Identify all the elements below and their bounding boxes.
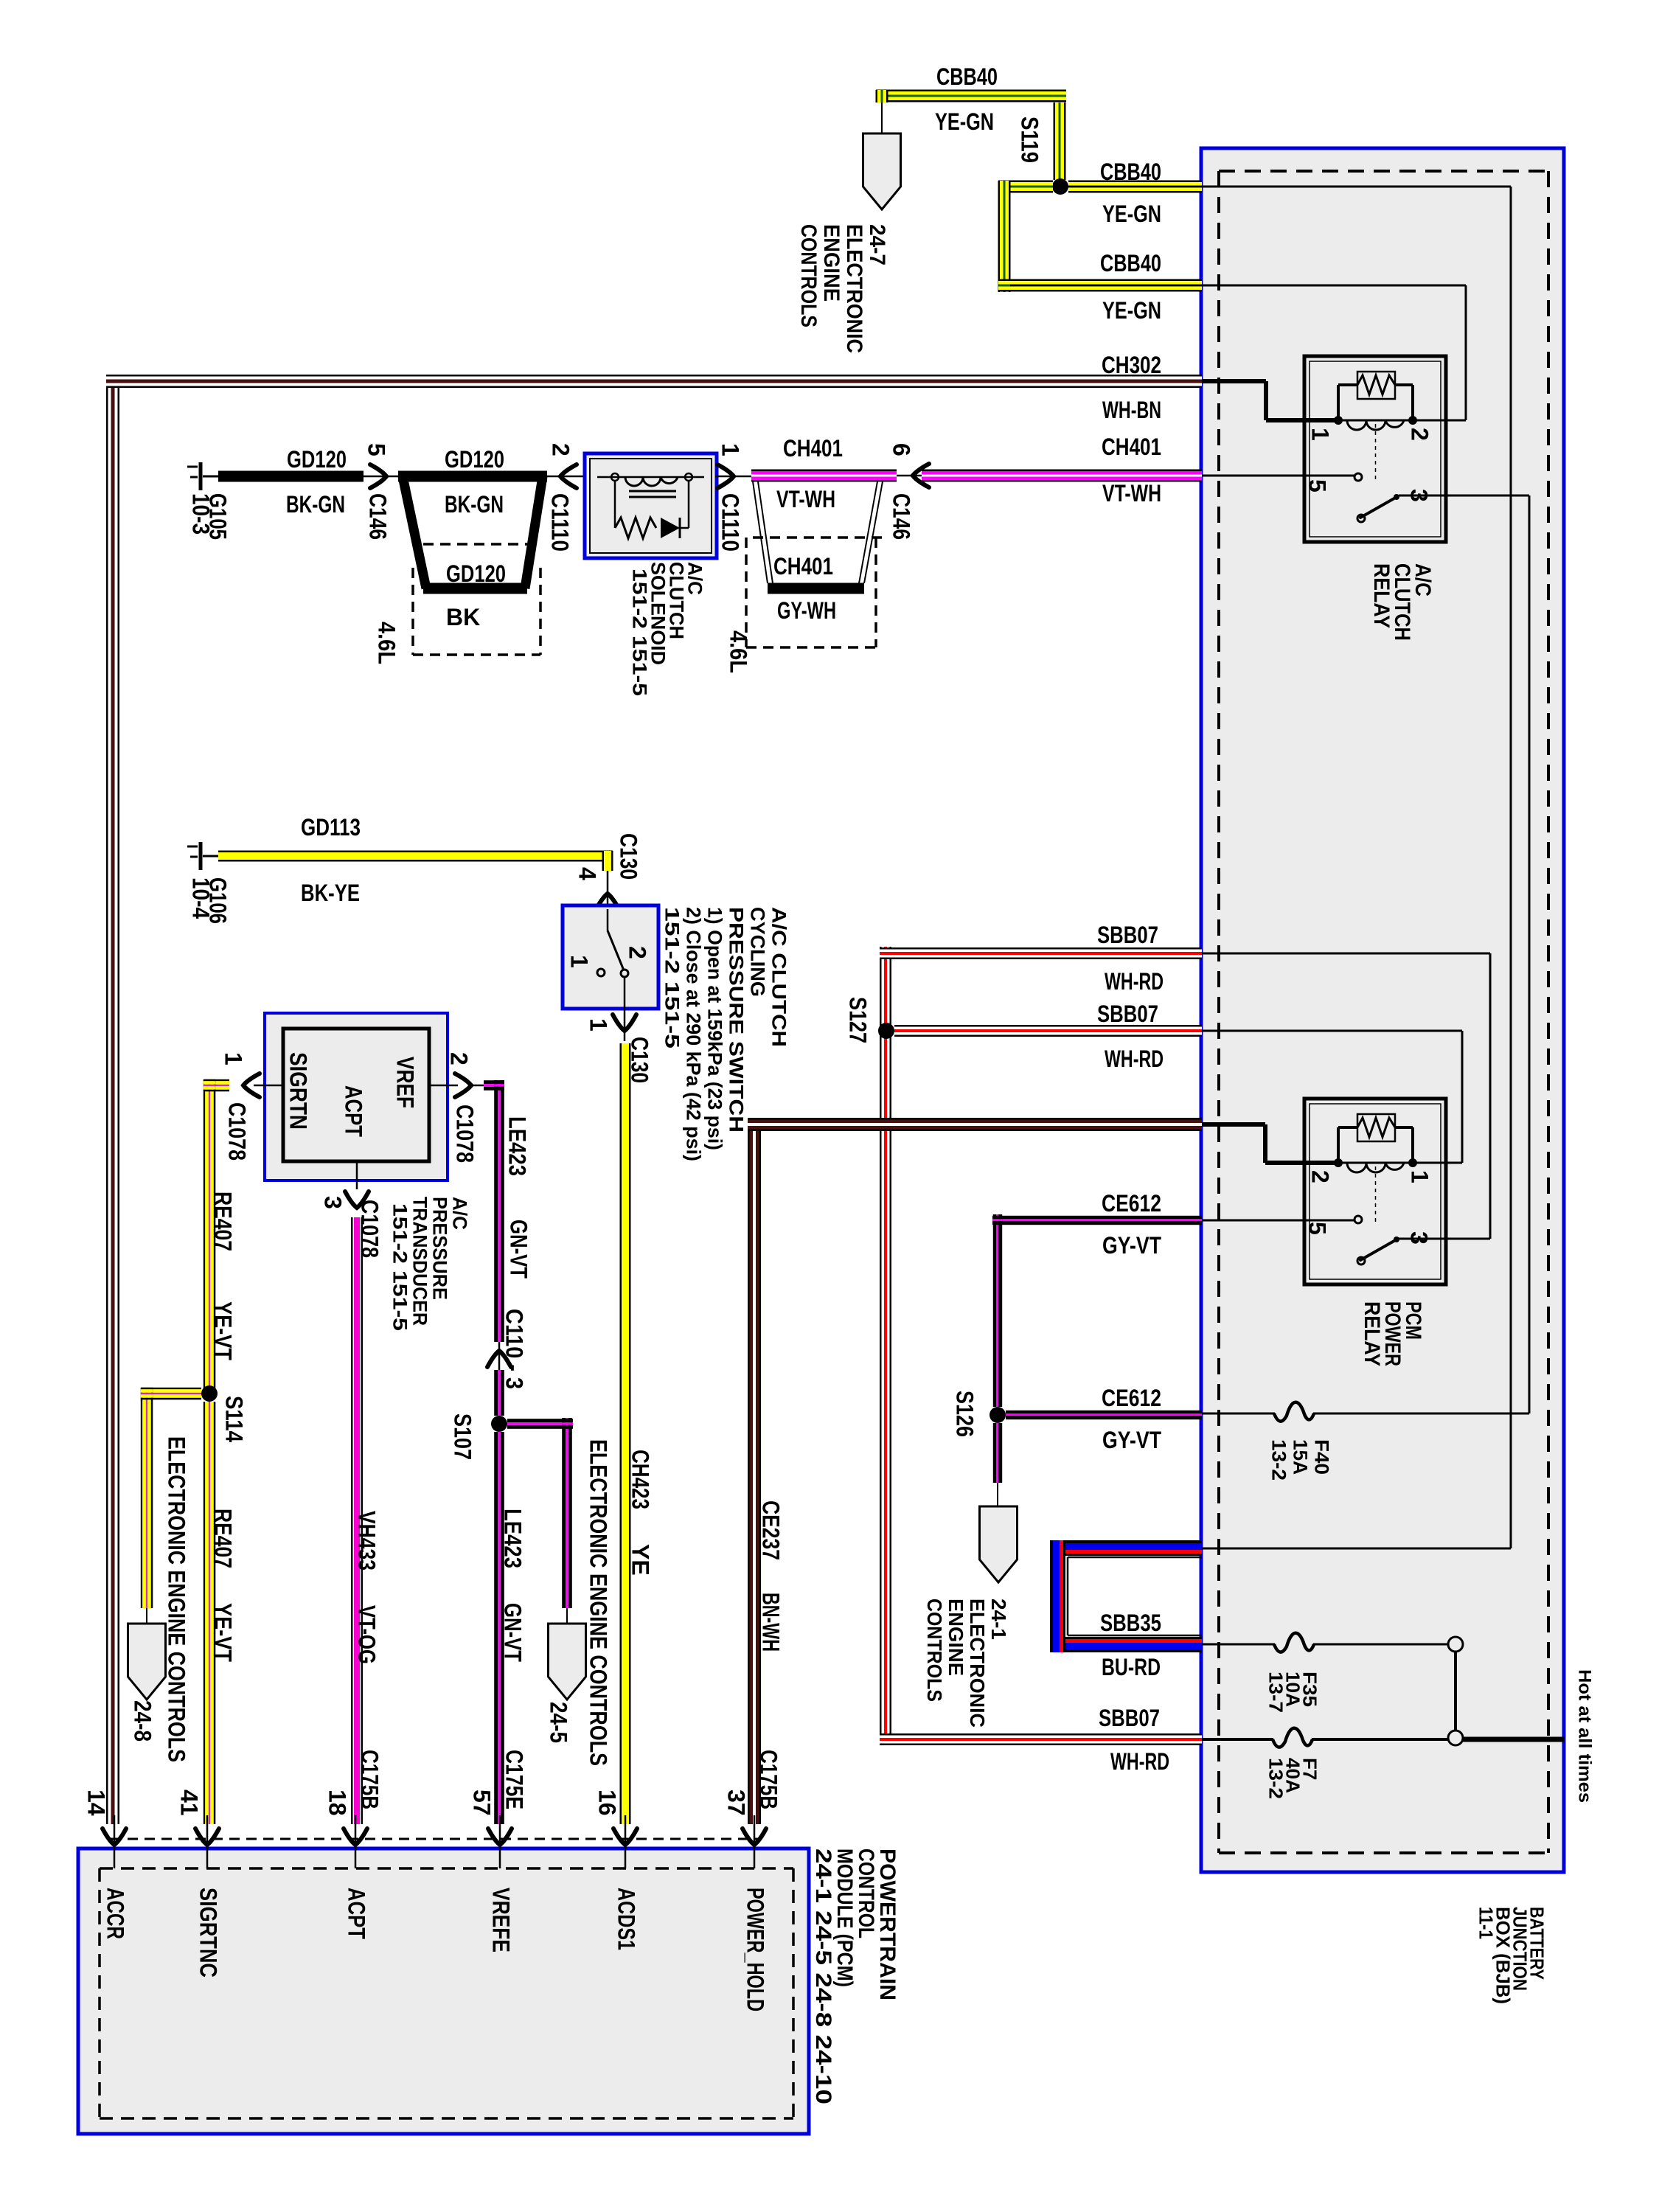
svg-text:1: 1 (220, 1052, 247, 1065)
svg-text:CH401: CH401 (783, 435, 843, 462)
svg-text:4.6L: 4.6L (726, 630, 752, 673)
svg-text:GD120: GD120 (446, 560, 506, 587)
svg-text:VREFE: VREFE (488, 1888, 515, 1952)
svg-text:C175E: C175E (501, 1750, 528, 1809)
svg-text:RE407: RE407 (210, 1509, 237, 1568)
svg-text:LE423: LE423 (504, 1116, 531, 1176)
svg-text:2: 2 (1407, 428, 1433, 441)
svg-text:1: 1 (1407, 1170, 1433, 1183)
svg-text:CH423: CH423 (627, 1450, 654, 1509)
svg-text:5: 5 (364, 443, 390, 456)
svg-text:CBB40: CBB40 (936, 63, 998, 90)
svg-text:SIGRTN: SIGRTN (285, 1052, 312, 1130)
svg-text:SIGRTNC: SIGRTNC (195, 1888, 222, 1978)
svg-text:ACPT: ACPT (344, 1888, 370, 1939)
svg-text:BK: BK (446, 604, 480, 630)
svg-text:BU-RD: BU-RD (1102, 1654, 1161, 1680)
svg-text:4: 4 (574, 867, 601, 880)
svg-text:VT-WH: VT-WH (1102, 480, 1161, 507)
svg-text:ACCR: ACCR (102, 1888, 129, 1939)
svg-text:CE612: CE612 (1102, 1385, 1161, 1411)
svg-text:F3510A13-7: F3510A13-7 (1265, 1672, 1321, 1713)
svg-text:BK-GN: BK-GN (445, 491, 504, 518)
svg-text:3: 3 (1406, 489, 1433, 502)
svg-text:C1110: C1110 (547, 493, 574, 552)
svg-text:ACPT: ACPT (341, 1085, 367, 1137)
svg-text:18: 18 (324, 1790, 351, 1816)
svg-text:S107: S107 (450, 1413, 476, 1460)
svg-text:YE-VT: YE-VT (210, 1301, 237, 1360)
svg-text:C175B: C175B (756, 1750, 782, 1809)
svg-text:VH433: VH433 (354, 1511, 380, 1571)
svg-text:Hot at all times: Hot at all times (1574, 1669, 1594, 1803)
svg-text:CH401: CH401 (1102, 434, 1161, 460)
svg-text:10-4: 10-4 (188, 877, 215, 919)
svg-text:57: 57 (469, 1790, 495, 1816)
svg-text:WH-RD: WH-RD (1110, 1748, 1169, 1775)
svg-text:ELECTRONIC ENGINE CONTROLS: ELECTRONIC ENGINE CONTROLS (585, 1439, 612, 1766)
svg-text:1: 1 (717, 443, 744, 456)
svg-text:CH302: CH302 (1102, 352, 1161, 378)
svg-text:C130: C130 (627, 1037, 653, 1083)
svg-text:F4015A13-2: F4015A13-2 (1267, 1439, 1332, 1481)
svg-text:SBB35: SBB35 (1100, 1610, 1161, 1636)
svg-text:CE612: CE612 (1102, 1190, 1161, 1217)
svg-text:VT-WH: VT-WH (776, 486, 835, 512)
svg-text:C146: C146 (365, 493, 392, 540)
svg-text:GY-WH: GY-WH (777, 597, 836, 624)
svg-text:C1078: C1078 (452, 1105, 479, 1163)
svg-text:WH-BN: WH-BN (1102, 397, 1161, 423)
svg-text:CH401: CH401 (773, 553, 833, 580)
svg-text:2: 2 (625, 946, 651, 959)
svg-text:S126: S126 (952, 1391, 978, 1437)
svg-text:YE-GN: YE-GN (1102, 201, 1161, 227)
svg-text:LE423: LE423 (500, 1509, 526, 1568)
svg-text:SBB07: SBB07 (1099, 1705, 1160, 1731)
svg-text:S127: S127 (845, 997, 872, 1043)
svg-text:VT-OG: VT-OG (354, 1605, 380, 1664)
svg-text:RE407: RE407 (210, 1192, 237, 1251)
svg-text:C110 - 3: C110 - 3 (501, 1309, 528, 1389)
svg-text:1: 1 (566, 955, 593, 968)
svg-text:10-3: 10-3 (188, 493, 215, 535)
svg-text:2: 2 (548, 443, 574, 456)
svg-text:S114: S114 (221, 1396, 248, 1442)
svg-text:1: 1 (585, 1018, 612, 1032)
svg-text:GN-VT: GN-VT (500, 1603, 526, 1662)
svg-text:CBB40: CBB40 (1100, 159, 1161, 185)
svg-text:1: 1 (1307, 428, 1334, 441)
svg-text:GD113: GD113 (301, 814, 361, 841)
svg-text:C146: C146 (888, 493, 915, 540)
svg-text:YE-VT: YE-VT (210, 1603, 237, 1662)
svg-text:14: 14 (83, 1790, 110, 1816)
svg-text:41: 41 (176, 1790, 203, 1816)
svg-text:S119: S119 (1017, 116, 1043, 163)
svg-text:C1078: C1078 (357, 1200, 383, 1258)
svg-text:VREF: VREF (392, 1057, 419, 1108)
svg-text:16: 16 (594, 1790, 621, 1816)
svg-text:GY-VT: GY-VT (1102, 1427, 1161, 1453)
svg-text:2: 2 (1307, 1170, 1334, 1183)
svg-text:GN-VT: GN-VT (506, 1220, 532, 1279)
svg-text:SBB07: SBB07 (1097, 922, 1158, 948)
svg-text:3: 3 (320, 1196, 347, 1209)
svg-text:GD120: GD120 (287, 446, 347, 473)
svg-text:CE237: CE237 (758, 1500, 785, 1560)
svg-text:2: 2 (446, 1052, 473, 1065)
svg-text:SBB07: SBB07 (1097, 1001, 1158, 1027)
svg-text:C130: C130 (616, 833, 642, 880)
svg-text:WH-RD: WH-RD (1105, 1046, 1164, 1072)
svg-text:BN-WH: BN-WH (758, 1593, 785, 1652)
svg-text:ELECTRONIC ENGINE CONTROLS: ELECTRONIC ENGINE CONTROLS (164, 1436, 190, 1762)
svg-text:YE-GN: YE-GN (935, 108, 994, 135)
svg-text:5: 5 (1304, 1222, 1331, 1235)
svg-text:WH-RD: WH-RD (1105, 968, 1164, 995)
svg-text:BK-YE: BK-YE (301, 880, 360, 906)
svg-text:YE: YE (627, 1544, 654, 1576)
svg-text:YE-GN: YE-GN (1102, 297, 1161, 324)
svg-text:C1110: C1110 (717, 493, 744, 552)
svg-text:4.6L: 4.6L (374, 622, 400, 664)
svg-text:CBB40: CBB40 (1100, 250, 1161, 276)
svg-text:24-5: 24-5 (546, 1702, 572, 1743)
svg-text:C1078: C1078 (224, 1102, 251, 1161)
svg-text:GY-VT: GY-VT (1102, 1232, 1161, 1259)
svg-text:24-8: 24-8 (130, 1700, 156, 1742)
svg-text:C175B: C175B (357, 1750, 383, 1809)
svg-text:3: 3 (1406, 1231, 1433, 1245)
svg-text:5: 5 (1304, 479, 1331, 493)
svg-text:6: 6 (888, 443, 915, 456)
svg-text:GD120: GD120 (445, 446, 504, 473)
svg-text:POWER_HOLD: POWER_HOLD (742, 1888, 769, 2011)
svg-text:37: 37 (723, 1790, 750, 1816)
svg-text:ACDS1: ACDS1 (613, 1888, 640, 1950)
svg-text:BK-GN: BK-GN (286, 491, 345, 518)
